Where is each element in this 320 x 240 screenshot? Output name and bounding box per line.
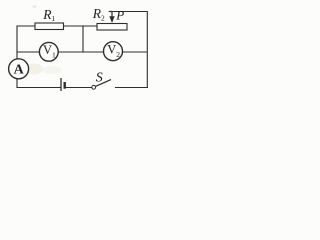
wiper arrow of R2 xyxy=(109,12,115,24)
svg-text:P: P xyxy=(115,8,124,23)
switch S xyxy=(92,80,111,90)
voltmeter V2 xyxy=(104,42,123,61)
wire top left horizontal xyxy=(17,25,97,27)
wire bottom row xyxy=(17,87,60,89)
resistor R1 xyxy=(35,23,64,30)
wire junction between R1 and R2 down to voltmeter row xyxy=(82,26,84,52)
ammeter A xyxy=(9,59,29,79)
svg-text:S: S xyxy=(96,71,103,86)
wire middle row horizontal xyxy=(17,51,147,53)
wire left edge vertical xyxy=(16,26,18,88)
wire wiper to top-right corner and right edge xyxy=(112,12,147,88)
rheostat R2 xyxy=(97,24,127,31)
voltmeter V1 xyxy=(39,42,58,61)
battery cell xyxy=(61,78,65,91)
paper background xyxy=(0,0,160,100)
svg-text:A: A xyxy=(14,62,25,77)
